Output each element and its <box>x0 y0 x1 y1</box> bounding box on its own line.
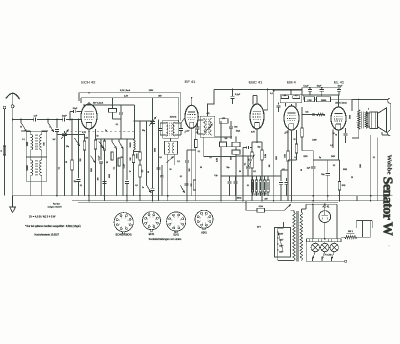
svg-text:25p: 25p <box>74 181 77 183</box>
svg-text:250V | 52mA: 250V | 52mA <box>335 101 347 104</box>
svg-text:300: 300 <box>189 169 191 172</box>
capacitor grid ECH42 <box>70 111 73 113</box>
switch extra a <box>75 138 80 146</box>
switch extra b <box>91 156 96 163</box>
wire cathode ECH42 <box>88 129 90 196</box>
resistor R cath <box>83 141 86 150</box>
wire EM4 cath <box>291 130 293 196</box>
svg-text:1: 1 <box>121 227 122 229</box>
svg-text:1: 1 <box>149 224 150 226</box>
resistor mid 112 <box>111 152 113 160</box>
antenna <box>6 93 20 99</box>
svg-text:70: 70 <box>335 135 337 137</box>
svg-text:3000: 3000 <box>27 142 29 146</box>
capacitor extra det <box>247 156 249 166</box>
svg-text:3: 3 <box>171 220 172 222</box>
svg-text:ECH 42: ECH 42 <box>81 79 96 84</box>
svg-text:vorigen GmbH: vorigen GmbH <box>47 206 62 209</box>
tube EF41 V2 <box>185 105 198 128</box>
wire fuse to switch <box>265 209 285 211</box>
svg-text:50p: 50p <box>227 167 230 169</box>
socket AZ41 <box>195 210 213 228</box>
coil IF1 primary <box>166 123 168 137</box>
svg-text:0,1µF: 0,1µF <box>303 85 309 87</box>
resistor RW1 <box>345 236 358 239</box>
wire line 40V <box>83 104 135 106</box>
resistor EM4 2 <box>293 96 300 99</box>
svg-text:Ruf der: Ruf der <box>53 202 60 205</box>
wire lamp left bracket <box>305 242 307 261</box>
wire EL41 grid cap <box>302 114 325 116</box>
svg-text:6,3: 6,3 <box>196 132 199 134</box>
svg-text:50: 50 <box>148 171 150 173</box>
svg-text:5: 5 <box>178 217 179 219</box>
wire EL41 plate top <box>338 95 340 107</box>
svg-text:3: 3 <box>119 220 120 222</box>
coil L1 set <box>30 131 32 135</box>
svg-text:2,4V: 2,4V <box>124 96 129 98</box>
svg-text:6: 6 <box>155 219 156 221</box>
svg-text:0,5: 0,5 <box>159 157 161 159</box>
resistor extra em4 <box>296 130 298 144</box>
wire trim link <box>112 98 114 109</box>
capacitor EM4 grid <box>278 103 280 105</box>
svg-text:50: 50 <box>66 161 68 163</box>
capacitor smoothing 2 <box>321 88 323 90</box>
svg-text:2500: 2500 <box>276 156 278 160</box>
capacitor 0,1 c <box>184 184 188 186</box>
ground bus <box>13 195 393 197</box>
transformer output secondary <box>365 111 367 129</box>
wire cap 2uF branch <box>312 151 314 166</box>
wire plate feed right <box>352 99 389 101</box>
svg-text:30000: 30000 <box>130 143 132 148</box>
capacitor EL41 k <box>345 128 347 133</box>
box EM4 resistors <box>280 95 302 103</box>
speaker <box>370 112 378 129</box>
capacitor extra x167 <box>160 176 163 178</box>
resistor 30000 v <box>139 121 141 152</box>
coil IF1 secondary <box>173 123 175 137</box>
dial lamp 1 <box>314 242 316 244</box>
wire x158 <box>158 120 160 196</box>
svg-text:5000: 5000 <box>350 115 352 119</box>
svg-text:1: 1 <box>202 223 203 225</box>
switch S5 <box>181 186 185 193</box>
svg-text:EL41: EL41 <box>174 235 180 237</box>
transformer mains primary <box>293 212 296 261</box>
svg-text:452: 452 <box>207 113 210 115</box>
transformer output primary <box>358 110 360 130</box>
wire mid node <box>134 151 141 153</box>
left rail <box>4 109 6 196</box>
svg-text:10n: 10n <box>305 112 308 114</box>
wire rect anode <box>324 204 326 210</box>
svg-text:0,1: 0,1 <box>245 163 247 166</box>
resistor 30000 w <box>139 165 142 177</box>
wire field link <box>302 95 304 99</box>
variable capacitor tuning C6 <box>64 131 66 133</box>
wire rect top rail <box>306 203 337 205</box>
svg-text:10k: 10k <box>101 144 103 147</box>
transformer mains core <box>297 211 299 262</box>
resistor left drop EL41 <box>301 128 304 137</box>
wire det lower link <box>204 156 236 158</box>
terminal output top <box>388 98 391 103</box>
dial lamp 2 <box>324 242 326 244</box>
terminal antenna <box>11 105 14 108</box>
svg-text:250V: 250V <box>149 90 154 92</box>
wire mains feed <box>245 201 247 211</box>
svg-text:50µF: 50µF <box>338 85 343 87</box>
wire lamp rail left <box>312 204 314 239</box>
box coil group 2 <box>26 157 46 181</box>
svg-text:452 kHz: 452 kHz <box>170 117 177 119</box>
svg-text:5: 5 <box>205 215 206 217</box>
svg-text:L: L <box>49 127 50 129</box>
wire IF1 to lower <box>170 138 172 141</box>
coil L4 set <box>41 157 43 160</box>
svg-text:0,2: 0,2 <box>333 165 335 167</box>
svg-text:1n: 1n <box>129 171 131 173</box>
IF transformer 1b lower winding <box>165 141 178 154</box>
coil IF2 secondary <box>210 119 212 136</box>
capacitor trimmer C5 <box>56 120 58 129</box>
svg-text:* Nur bei späteren Geräten aus: * Nur bei späteren Geräten ausgeführt : … <box>25 225 81 228</box>
bus ticks <box>88 196 90 201</box>
svg-text:6: 6 <box>128 220 129 222</box>
coil L3 set <box>30 157 32 160</box>
svg-text:4: 4 <box>202 215 203 217</box>
svg-text:8: 8 <box>153 224 154 226</box>
capacitor 0,1uF b <box>126 139 128 180</box>
svg-text:50: 50 <box>301 169 303 171</box>
svg-text:Senator W: Senator W <box>380 177 395 236</box>
wire input bus <box>13 119 82 121</box>
svg-text:300: 300 <box>98 178 100 181</box>
resistor left edge <box>3 146 6 155</box>
svg-text:0,5A: 0,5A <box>259 205 264 208</box>
svg-text:4: 4 <box>149 217 150 219</box>
svg-text:7: 7 <box>207 221 208 223</box>
resistor det2 <box>232 142 240 146</box>
svg-text:Wobbe: Wobbe <box>386 155 393 175</box>
capacitor C couple <box>243 147 247 149</box>
svg-text:2: 2 <box>171 223 172 225</box>
svg-text:0,1: 0,1 <box>59 167 61 169</box>
capacitor IF1 right <box>180 123 182 128</box>
wire cap 50uF branch <box>327 160 329 173</box>
wire feedback line <box>302 150 313 152</box>
wire gang dashed link <box>66 131 136 133</box>
wire EBC node <box>252 141 262 143</box>
wire EF41 plate up <box>191 98 193 106</box>
wire EL41 cathode <box>338 130 340 160</box>
capacitor 0,1uF drop <box>231 90 233 97</box>
svg-text:9,2V | 9mA: 9,2V | 9mA <box>120 89 131 92</box>
dial lamp 3 <box>333 242 335 244</box>
svg-text:1M: 1M <box>248 158 250 161</box>
switch band S1b <box>47 120 49 123</box>
svg-text:7V 4,5W: 7V 4,5W <box>325 254 332 256</box>
resistor 500 <box>132 155 135 163</box>
svg-text:380Ω: 380Ω <box>237 198 242 200</box>
svg-text:150: 150 <box>85 138 88 140</box>
svg-text:0,3M: 0,3M <box>265 154 267 158</box>
wire det link <box>230 137 232 139</box>
wire IF2 top <box>207 104 209 116</box>
wire B+ rail top <box>302 87 341 89</box>
wire osc grid <box>65 134 85 136</box>
terminal lamp return <box>345 260 347 262</box>
switch S2 <box>99 142 104 149</box>
svg-text:EF 41: EF 41 <box>185 79 196 84</box>
svg-text:2n: 2n <box>142 187 144 189</box>
wire right rail 370 <box>370 135 372 196</box>
capacitor row a <box>229 176 231 181</box>
wire EBC drop <box>267 90 269 111</box>
capacitor row d <box>286 178 288 181</box>
svg-text:EM 4: EM 4 <box>287 81 296 85</box>
wire primary top link <box>278 227 284 229</box>
svg-text:20: 20 <box>106 162 108 164</box>
wire var cap down <box>64 140 66 196</box>
switch lamp 2 <box>322 252 325 259</box>
wire IF1 top drop <box>170 119 172 122</box>
IF transformer 1 can <box>163 120 178 138</box>
svg-text:0,1: 0,1 <box>373 157 375 159</box>
svg-text:100: 100 <box>222 118 225 120</box>
rectifier tube AZ41 <box>319 211 331 223</box>
capacitor smoothing 1 <box>309 88 311 90</box>
svg-text:25000: 25000 <box>321 100 326 102</box>
wire antenna lead lower <box>12 108 14 120</box>
svg-text:0,1: 0,1 <box>116 124 119 126</box>
wire osc link 121 <box>134 120 153 122</box>
wire lamp rail right <box>336 204 338 239</box>
capacitor under EF41 <box>191 150 193 196</box>
svg-text:1nF: 1nF <box>34 115 38 117</box>
resistor field 25000 <box>317 97 331 102</box>
junction input <box>12 119 14 121</box>
resistor row 3 <box>260 176 262 180</box>
svg-text:7: 7 <box>128 224 129 226</box>
svg-text:EL 41: EL 41 <box>334 79 345 84</box>
svg-text:50p: 50p <box>258 147 261 149</box>
capacitor row c <box>280 176 282 181</box>
wire link 163 <box>313 159 339 161</box>
svg-text:3: 3 <box>200 217 201 219</box>
svg-text:AZ41: AZ41 <box>201 232 207 235</box>
wire down 243 <box>242 148 244 196</box>
coil choke 30000 <box>133 139 135 140</box>
core IF1 <box>170 123 171 137</box>
switch band S1a <box>20 120 22 123</box>
svg-text:Hochohmwerte 10.5027: Hochohmwerte 10.5027 <box>35 233 60 236</box>
junction dots rails <box>69 119 71 121</box>
svg-text:500: 500 <box>130 158 132 161</box>
svg-text:1700: 1700 <box>307 100 311 102</box>
svg-text:0,5: 0,5 <box>135 185 138 187</box>
wire hf node <box>96 138 135 140</box>
tube EM4 V4 <box>284 106 299 130</box>
resistor 500 b <box>193 180 196 190</box>
svg-text:0,1: 0,1 <box>198 151 201 153</box>
svg-text:25: 25 <box>351 177 353 179</box>
wire extra top EBC <box>252 96 254 105</box>
svg-text:Sockelschaltungen von unten: Sockelschaltungen von unten <box>149 238 182 241</box>
coil IF2 primary <box>204 119 206 136</box>
resistor R osc2 <box>94 140 97 149</box>
capacitor C bypass a <box>100 139 102 160</box>
svg-text:30p: 30p <box>142 130 145 132</box>
wire coupling <box>21 130 31 132</box>
resistor R load <box>261 142 263 150</box>
svg-text:31pF: 31pF <box>73 108 78 110</box>
svg-text:5000: 5000 <box>109 174 111 178</box>
svg-text:0,1µ: 0,1µ <box>214 175 217 177</box>
switch S4 <box>146 121 148 185</box>
potentiometer volume <box>251 142 253 152</box>
plate trim cap <box>120 105 122 112</box>
switch IF arrow <box>166 157 174 164</box>
switch lamp 1 <box>312 252 315 259</box>
svg-text:8: 8 <box>178 226 179 228</box>
switch lamp 3 <box>331 252 334 259</box>
tube ECH42 V1 <box>81 104 97 129</box>
terminal output bottom <box>388 130 391 135</box>
svg-text:8: 8 <box>125 226 126 228</box>
plate trim box <box>109 109 117 113</box>
terminal left top <box>3 106 6 109</box>
capacitor small x158 <box>157 168 161 170</box>
svg-text:2: 2 <box>200 221 201 223</box>
svg-text:10M: 10M <box>284 154 286 158</box>
svg-text:50: 50 <box>200 167 202 169</box>
wire EL41 screen <box>332 129 334 148</box>
svg-text:0,1: 0,1 <box>247 185 249 187</box>
svg-text:30000: 30000 <box>27 165 29 170</box>
wire screen line 97.8 <box>81 97 179 99</box>
resistor EL41 grid <box>317 113 326 115</box>
wire heater top link <box>356 220 372 222</box>
svg-text:7: 7 <box>180 223 181 225</box>
wire terminal link right <box>390 104 392 131</box>
capacitor 0,1uF a <box>102 182 106 184</box>
core IF2 <box>207 119 208 136</box>
svg-text:300: 300 <box>234 126 237 128</box>
transformer mains secondary <box>300 212 303 261</box>
svg-text:0,5: 0,5 <box>253 171 256 173</box>
resistor 5k drop <box>339 160 341 182</box>
wire antenna lead <box>12 93 14 105</box>
resistor 10k <box>104 139 106 141</box>
svg-text:2: 2 <box>119 224 120 226</box>
svg-text:5: 5 <box>125 218 126 220</box>
coil L2 set <box>41 131 43 135</box>
svg-text:0,1: 0,1 <box>180 176 182 178</box>
svg-text:180V: 180V <box>312 139 317 141</box>
wire antenna ground drop <box>12 120 14 196</box>
wire speaker leads <box>367 113 369 127</box>
svg-text:2000: 2000 <box>155 148 157 152</box>
capacitor antenna series 1 <box>33 118 36 122</box>
wire RW1 rail <box>341 236 345 238</box>
wire screen rail <box>302 94 339 96</box>
resistor mid 119 <box>118 158 120 166</box>
switch S3a <box>111 139 113 142</box>
svg-text:50: 50 <box>239 171 241 173</box>
socket EF41 <box>143 212 161 230</box>
svg-text:0,5: 0,5 <box>295 95 298 97</box>
svg-text:2: 2 <box>147 222 148 224</box>
ground symbol <box>10 196 16 213</box>
IF transformer 2 can <box>200 116 215 137</box>
svg-text:50: 50 <box>97 136 99 138</box>
junction bus dots <box>104 195 106 197</box>
capacitor IF2 left <box>197 120 199 127</box>
junction dots lower bus <box>88 200 90 202</box>
svg-text:ECH42+EBC41: ECH42+EBC41 <box>116 235 133 237</box>
box coil group 1 <box>26 132 46 157</box>
capacitor antenna series 2 <box>62 118 65 122</box>
svg-text:30000: 30000 <box>136 154 138 159</box>
wire EF41 cathode <box>191 128 193 195</box>
svg-text:0,2: 0,2 <box>209 157 211 159</box>
capacitor smoothing 3 <box>338 88 340 90</box>
resistor row 5 <box>267 176 269 180</box>
wire gang right <box>152 98 154 188</box>
variable capacitor gang 2 <box>150 122 155 124</box>
capacitor row b <box>235 176 237 181</box>
wire out prim bottom <box>358 130 360 139</box>
svg-text:50pF: 50pF <box>62 115 68 117</box>
capacitor C osc <box>78 120 80 179</box>
wire det links <box>227 146 233 148</box>
wire EM4 links <box>281 169 288 171</box>
wire plate line 92.6 <box>79 92 181 94</box>
svg-text:5: 5 <box>153 217 154 219</box>
svg-text:0,3: 0,3 <box>142 170 144 173</box>
svg-text:0,2: 0,2 <box>177 161 180 163</box>
switch mains <box>285 205 291 211</box>
dial lamp bar <box>307 239 342 242</box>
svg-text:4: 4 <box>368 109 369 111</box>
core coils L1 L2 <box>35 135 37 151</box>
wire EF41 grid <box>181 118 185 124</box>
switch IF2 arrow <box>204 124 213 133</box>
svg-text:7: 7 <box>155 222 156 224</box>
wire EBC41 plate <box>256 96 258 105</box>
svg-text:500: 500 <box>44 142 46 145</box>
svg-text:AZ 41: AZ 41 <box>323 205 330 209</box>
svg-text:200: 200 <box>80 159 82 162</box>
svg-text:50µF: 50µF <box>317 85 322 87</box>
wire EM4 left lead <box>273 91 275 196</box>
resistor det1 <box>220 142 227 147</box>
wire top rail right <box>214 89 302 91</box>
wire EM4 box feeds <box>285 103 287 107</box>
wire EBC41 cathode <box>256 129 258 142</box>
svg-text:1500: 1500 <box>360 164 362 168</box>
wire heater bus 2 <box>78 201 338 203</box>
socket EL41 <box>167 212 186 231</box>
svg-text:EBC 41: EBC 41 <box>249 80 264 85</box>
wire pot link <box>236 155 252 157</box>
svg-text:0,1 0,15 3 50 300: 0,1 0,15 3 50 300 <box>253 194 266 196</box>
wire return bus <box>72 200 390 202</box>
junction right rails <box>312 195 314 197</box>
